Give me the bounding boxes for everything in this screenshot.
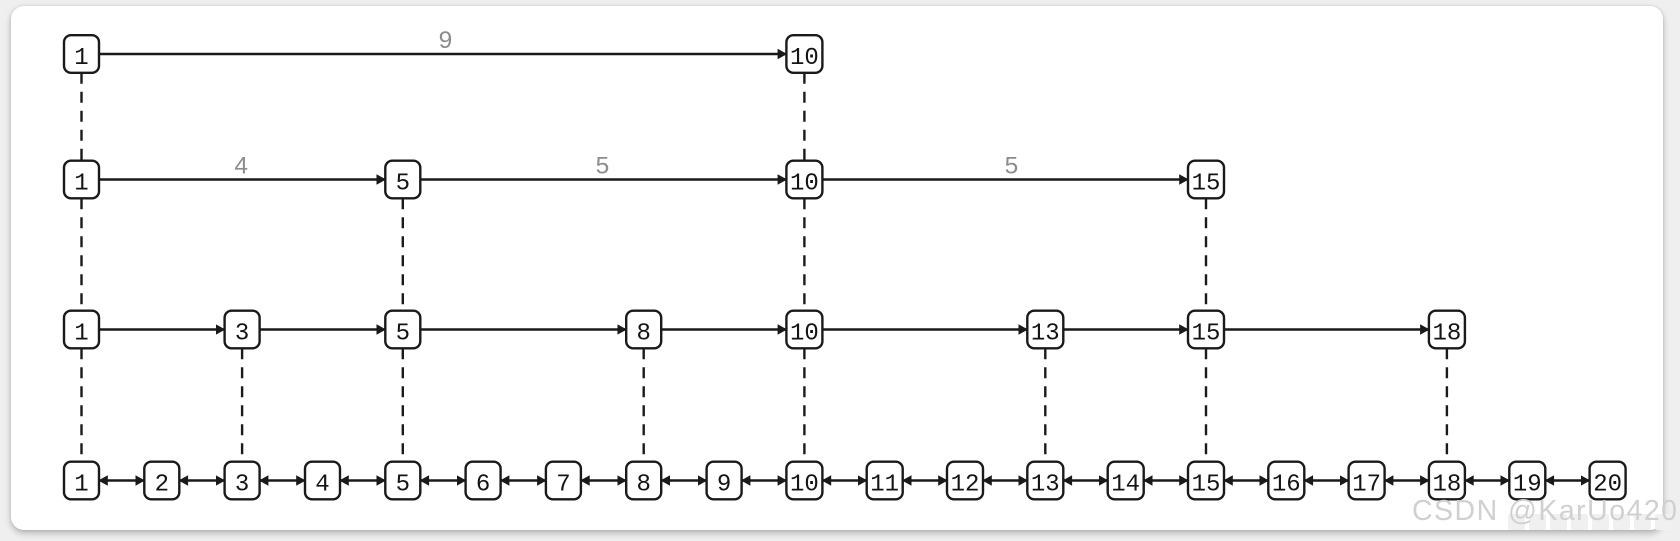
svg-text:11: 11	[870, 471, 899, 498]
arrow level1: 1 to 2	[99, 479, 144, 481]
node level2 value 18	[1429, 311, 1465, 349]
arrow level2: 8 to 10	[661, 328, 786, 330]
arrow level1: 17 to 18	[1385, 479, 1429, 481]
svg-text:10: 10	[790, 471, 819, 498]
arrow level1: 19 to 20	[1545, 479, 1589, 481]
arrow level3: 10 to 15	[822, 178, 1188, 180]
dashed link col 18: level2 to level1	[1446, 348, 1448, 461]
svg-text:15: 15	[1192, 170, 1221, 197]
arrow level1: 7 to 8	[581, 479, 626, 481]
svg-text:5: 5	[396, 320, 410, 347]
svg-text:1: 1	[74, 320, 88, 347]
node level1 value 3	[225, 462, 260, 500]
svg-text:4: 4	[234, 153, 248, 180]
svg-text:7: 7	[556, 471, 570, 498]
node level4 value 1	[64, 35, 99, 73]
arrow level1: 8 to 9	[661, 479, 706, 481]
node level3 value 15	[1188, 161, 1224, 199]
svg-text:14: 14	[1111, 471, 1140, 498]
arrow level1: 11 to 12	[903, 479, 947, 481]
arrow level2: 13 to 15	[1063, 328, 1188, 330]
svg-text:3: 3	[235, 471, 249, 498]
node level2 value 8	[626, 311, 661, 349]
dashed link col 1: level4 to level3	[80, 73, 82, 161]
edge label 4 (span 1-5)	[234, 153, 248, 180]
dashed link col 10: level4 to level3	[803, 73, 805, 161]
node level1 value 17	[1349, 462, 1385, 500]
node level1 value 20	[1590, 462, 1626, 500]
arrow level2: 5 to 8	[420, 328, 626, 330]
svg-text:1: 1	[74, 471, 88, 498]
arrow level1: 12 to 13	[983, 479, 1027, 481]
node level2 value 13	[1027, 311, 1063, 349]
dashed link col 15: level3 to level2	[1205, 198, 1207, 310]
node level1 value 7	[546, 462, 581, 500]
dashed link col 5: level2 to level1	[402, 348, 404, 461]
svg-text:13: 13	[1031, 471, 1060, 498]
arrow level1: 3 to 4	[260, 479, 305, 481]
node level1 value 16	[1268, 462, 1304, 500]
node level2 value 15	[1188, 311, 1224, 349]
node level1 value 1	[64, 462, 99, 500]
svg-text:4: 4	[315, 471, 329, 498]
arrow level1: 2 to 3	[179, 479, 224, 481]
svg-text:13: 13	[1031, 320, 1060, 347]
dashed link col 10: level3 to level2	[803, 198, 805, 310]
edge label 5 (span 10-15)	[1005, 153, 1019, 180]
svg-text:18: 18	[1432, 320, 1461, 347]
arrow level1: 10 to 11	[822, 479, 866, 481]
watermark CSDN @KarUo420	[1412, 495, 1677, 527]
arrow level1: 16 to 17	[1304, 479, 1348, 481]
svg-text:15: 15	[1192, 471, 1221, 498]
arrow level2: 15 to 18	[1224, 328, 1429, 330]
svg-text:CSDN @KarUo420: CSDN @KarUo420	[1412, 495, 1677, 527]
dashed link col 10: level2 to level1	[803, 348, 805, 461]
svg-text:5: 5	[396, 471, 410, 498]
arrow level2: 10 to 13	[822, 328, 1027, 330]
svg-text:1: 1	[74, 170, 88, 197]
arrow level1: 18 to 19	[1465, 479, 1509, 481]
dashed link col 1: level2 to level1	[80, 348, 82, 461]
svg-text:2: 2	[155, 471, 169, 498]
node level1 value 9	[707, 462, 742, 500]
dashed link col 13: level2 to level1	[1044, 348, 1046, 461]
node level1 value 2	[144, 462, 179, 500]
node level2 value 10	[786, 311, 822, 349]
svg-text:12: 12	[951, 471, 980, 498]
dashed link col 8: level2 to level1	[643, 348, 645, 461]
dashed link col 3: level2 to level1	[241, 348, 243, 461]
dashed link col 5: level3 to level2	[402, 198, 404, 310]
arrow level1: 9 to 10	[742, 479, 787, 481]
node level1 value 4	[305, 462, 340, 500]
svg-text:1: 1	[74, 45, 88, 72]
svg-text:8: 8	[636, 471, 650, 498]
svg-text:9: 9	[439, 27, 453, 54]
svg-text:16: 16	[1272, 471, 1301, 498]
node level1 value 10	[786, 462, 822, 500]
node level2 value 5	[385, 311, 420, 349]
arrow level2: 3 to 5	[260, 328, 386, 330]
node level1 value 13	[1027, 462, 1063, 500]
node level1 value 15	[1188, 462, 1224, 500]
dashed link col 1: level3 to level2	[80, 198, 82, 310]
svg-text:8: 8	[636, 320, 650, 347]
node level3 value 5	[385, 161, 420, 199]
svg-text:10: 10	[790, 320, 819, 347]
svg-text:10: 10	[790, 170, 819, 197]
faint secondary watermark blocks	[1508, 514, 1672, 530]
edge label 5 (span 5-10)	[596, 153, 610, 180]
node level1 value 18	[1429, 462, 1465, 500]
node level3 value 10	[786, 161, 822, 199]
node level3 value 1	[64, 161, 99, 199]
node level1 value 5	[385, 462, 420, 500]
svg-text:6: 6	[476, 471, 490, 498]
arrow level1: 14 to 15	[1144, 479, 1188, 481]
svg-text:3: 3	[235, 320, 249, 347]
arrow level2: 1 to 3	[99, 328, 225, 330]
svg-text:5: 5	[396, 170, 410, 197]
dashed link col 15: level2 to level1	[1205, 348, 1207, 461]
node level1 value 14	[1108, 462, 1144, 500]
node level1 value 11	[867, 462, 903, 500]
node level4 value 10	[786, 35, 822, 73]
edge label 9 (span 1-10)	[439, 27, 453, 54]
arrow level3: 1 to 5	[99, 178, 385, 180]
svg-text:17: 17	[1352, 471, 1381, 498]
arrow level1: 13 to 14	[1063, 479, 1107, 481]
arrow level1: 6 to 7	[501, 479, 546, 481]
arrow level4: 1 to 10	[99, 53, 786, 55]
svg-text:9: 9	[717, 471, 731, 498]
svg-text:5: 5	[596, 153, 610, 180]
node level2 value 3	[225, 311, 260, 349]
node level2 value 1	[64, 311, 99, 349]
arrow level1: 4 to 5	[340, 479, 385, 481]
arrow level3: 5 to 10	[420, 178, 786, 180]
arrow level1: 15 to 16	[1224, 479, 1268, 481]
node level1 value 19	[1509, 462, 1545, 500]
arrow level1: 5 to 6	[420, 479, 465, 481]
svg-text:15: 15	[1192, 320, 1221, 347]
node level1 value 12	[947, 462, 983, 500]
node level1 value 6	[466, 462, 501, 500]
svg-text:10: 10	[790, 45, 819, 72]
node level1 value 8	[626, 462, 661, 500]
svg-text:5: 5	[1005, 153, 1019, 180]
